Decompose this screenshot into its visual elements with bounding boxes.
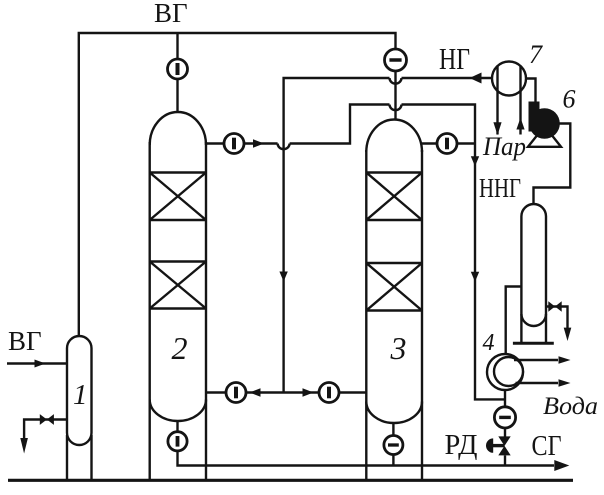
stripper vessel (small column) — [513, 204, 554, 343]
instrument circle I at column 3 feed — [319, 383, 339, 403]
hop of upper transfer line over column 3 feed — [390, 105, 402, 111]
wire: ВГ feed into separator 1 — [7, 362, 67, 364]
column 2 upper packing — [150, 173, 206, 221]
svg-text:1: 1 — [73, 379, 88, 411]
svg-text:2: 2 — [172, 330, 188, 366]
node НГ label — [439, 41, 470, 76]
node 4 label — [483, 330, 495, 356]
column 3 upper packing — [366, 173, 422, 221]
arrow right toward column 3 feed — [303, 388, 314, 397]
svg-text:ННГ: ННГ — [479, 173, 521, 203]
instrument circle I at column 2 feed — [226, 383, 246, 403]
node 1 label — [73, 379, 88, 411]
arrow right on ВГ feed — [35, 360, 46, 368]
wire: НГ line from heat exchanger 7 to left elbow, with hop over column3 feed — [284, 78, 493, 393]
arrow down on separator 1 drain — [20, 438, 28, 454]
node 6 label — [563, 85, 576, 114]
wire: column 2 overhead to riser, up and over to ННГ drop — [206, 105, 505, 400]
node Вода label — [543, 393, 598, 420]
node ННГ label — [479, 173, 521, 203]
wire: stripper side draw down to separator 4 — [506, 287, 522, 355]
column 3 lower packing — [366, 263, 422, 311]
wire: pump discharge down and into stripper top — [534, 124, 571, 206]
node ВГ top label — [154, 0, 188, 28]
svg-text:7: 7 — [529, 40, 543, 69]
instrument circle minus above column 3 — [385, 49, 407, 71]
svg-text:4: 4 — [483, 330, 495, 356]
svg-text:СГ: СГ — [532, 430, 562, 462]
wire: left rail from top header down to separator 1 — [79, 33, 396, 338]
pressure regulator valve РД — [486, 436, 511, 455]
wire: column 2 bottoms to СГ header — [178, 421, 555, 466]
valve on separator 1 drain — [40, 414, 54, 425]
node column 3 label — [390, 330, 407, 366]
node СГ label — [532, 430, 562, 462]
arrow left on НГ line — [470, 73, 482, 84]
arrow down after stripper valve — [564, 328, 572, 341]
heat exchanger U7 — [492, 62, 526, 135]
svg-text:РД: РД — [445, 429, 478, 461]
column 2 shell — [150, 112, 206, 480]
svg-text:НГ: НГ — [439, 41, 470, 76]
arrow down on ННГ drop lower — [471, 272, 479, 282]
ground baseline — [8, 479, 573, 482]
node Пар label — [482, 132, 526, 161]
wire: column 3 bottoms to СГ header — [392, 423, 394, 466]
wire: column 3 overhead to ННГ drop — [422, 142, 475, 144]
wire: feed split line between column 2 and column 3 — [206, 391, 366, 393]
instrument circle minus below separator 4 — [494, 407, 515, 428]
svg-text:3: 3 — [390, 330, 407, 366]
column 3 shell — [366, 119, 422, 479]
node column 2 label — [172, 330, 188, 366]
instrument circle I on column 2 overhead — [224, 134, 244, 154]
hop of overhead line over feed split riser — [278, 144, 290, 150]
arrow left toward column 2 feed — [250, 388, 261, 397]
wire: separator 1 drain with valve — [24, 420, 67, 441]
wire: drop from header to instrument and column 2 top — [176, 33, 178, 113]
node 7 label — [529, 40, 543, 69]
instrument circle I on line to column 2 top — [168, 59, 188, 79]
pump U6 — [528, 102, 561, 147]
wire: from minus instrument down into column 3 top — [394, 71, 396, 120]
arrow down on feed split riser — [279, 272, 287, 282]
node РД label — [445, 429, 478, 461]
wire: separator bottom to pressure regulator — [504, 390, 506, 466]
wire: separator outlet upper with arrow — [514, 359, 558, 361]
arrow right at СГ outlet — [554, 460, 569, 471]
hop on НГ line — [390, 78, 402, 84]
separator 1 shell — [67, 336, 92, 480]
arrow down on exchanger left tube — [493, 122, 501, 135]
svg-text:ВГ: ВГ — [8, 326, 42, 356]
svg-text:6: 6 — [563, 85, 576, 114]
instrument circle I on column 3 overhead — [437, 134, 457, 154]
arrow right on column 2 overhead — [253, 139, 264, 148]
valve on stripper bottoms line — [546, 307, 568, 329]
instrument circle minus below column 3 — [384, 436, 403, 455]
arrow up on exchanger right tube — [516, 118, 524, 130]
wire: exchanger to pump inlet — [526, 79, 536, 105]
node ВГ left label — [8, 326, 42, 356]
separator U4 — [487, 354, 523, 390]
column 2 lower packing — [150, 262, 206, 309]
svg-text:Пар: Пар — [482, 132, 526, 161]
svg-text:Вода: Вода — [543, 393, 598, 420]
instrument circle I below column 2 — [168, 432, 187, 451]
wire: separator outlet lower with arrow — [516, 382, 559, 384]
svg-text:ВГ: ВГ — [154, 0, 188, 28]
arrow down on ННГ drop upper — [471, 156, 479, 166]
